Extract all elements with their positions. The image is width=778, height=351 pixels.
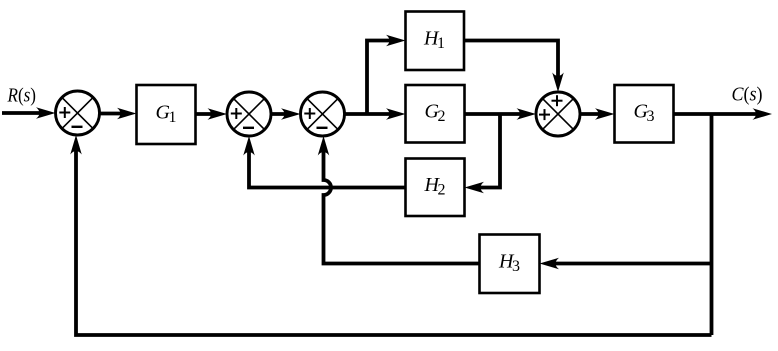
block H3 bbox=[480, 235, 540, 294]
svg-text:R(s): R(s) bbox=[7, 85, 36, 107]
block G2 bbox=[406, 85, 465, 143]
wire branch down into block H2 bbox=[477, 114, 500, 188]
wire H3 output to bottom of summing junction S3 with hop over H2 wire bbox=[324, 148, 480, 264]
wire branch up to block H1 bbox=[367, 41, 393, 115]
wire input R(s) to summing junction S1 bbox=[2, 111, 42, 115]
wire S3 to block G2 with branch node to H1 bbox=[345, 112, 394, 116]
block G1 bbox=[137, 85, 196, 144]
wire G2 to summing junction S4 with branch node to H2 bbox=[465, 112, 525, 116]
wire H1 output to top of summing junction S4 bbox=[464, 41, 558, 81]
wire G1 to summing junction S2 bbox=[196, 112, 216, 116]
block G3 bbox=[615, 85, 674, 143]
wire feedback drop from output node bbox=[710, 114, 714, 335]
block H2 bbox=[406, 159, 465, 217]
wire S2 to summing junction S3 bbox=[271, 112, 288, 116]
block H1 bbox=[406, 12, 465, 71]
summing junction S4 bbox=[536, 92, 580, 136]
wire G3 to output C(s) with branch node for feedback bbox=[674, 112, 761, 116]
summing junction S2 bbox=[227, 92, 271, 136]
wire output feedback into block H3 bbox=[552, 262, 712, 266]
wire outer feedback loop to bottom of summing junction S1 bbox=[76, 147, 712, 335]
wire S4 to block G3 bbox=[580, 112, 602, 116]
wire S1 to block G1 bbox=[100, 112, 125, 116]
summing junction S3 bbox=[301, 92, 345, 136]
wire H2 output to bottom of summing junction S2 bbox=[249, 148, 406, 188]
svg-text:C(s): C(s) bbox=[732, 84, 763, 106]
summing junction S1 bbox=[56, 91, 100, 135]
